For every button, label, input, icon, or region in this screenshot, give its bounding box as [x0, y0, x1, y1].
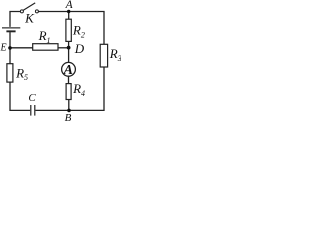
svg-text:R3: R3 — [109, 46, 121, 63]
svg-text:K: K — [24, 11, 35, 26]
svg-text:A: A — [63, 63, 73, 78]
svg-text:E: E — [0, 42, 7, 53]
svg-text:R2: R2 — [72, 23, 85, 40]
svg-text:A: A — [65, 0, 74, 11]
svg-text:R5: R5 — [15, 65, 28, 82]
svg-text:B: B — [65, 112, 72, 122]
svg-text:R1: R1 — [38, 28, 51, 45]
svg-text:C: C — [28, 92, 36, 104]
svg-text:R4: R4 — [72, 81, 85, 98]
svg-text:D: D — [74, 41, 85, 56]
